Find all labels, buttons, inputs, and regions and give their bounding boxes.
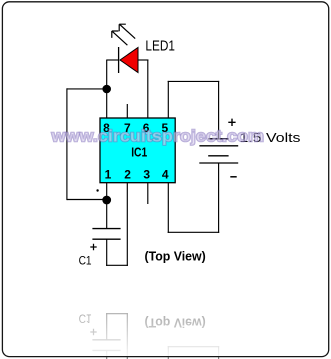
reflection fade overlay [3, 292, 328, 356]
reflection of circuit [67, 312, 301, 359]
svg-text:www.circuitsproject.com: www.circuitsproject.com [50, 127, 264, 146]
